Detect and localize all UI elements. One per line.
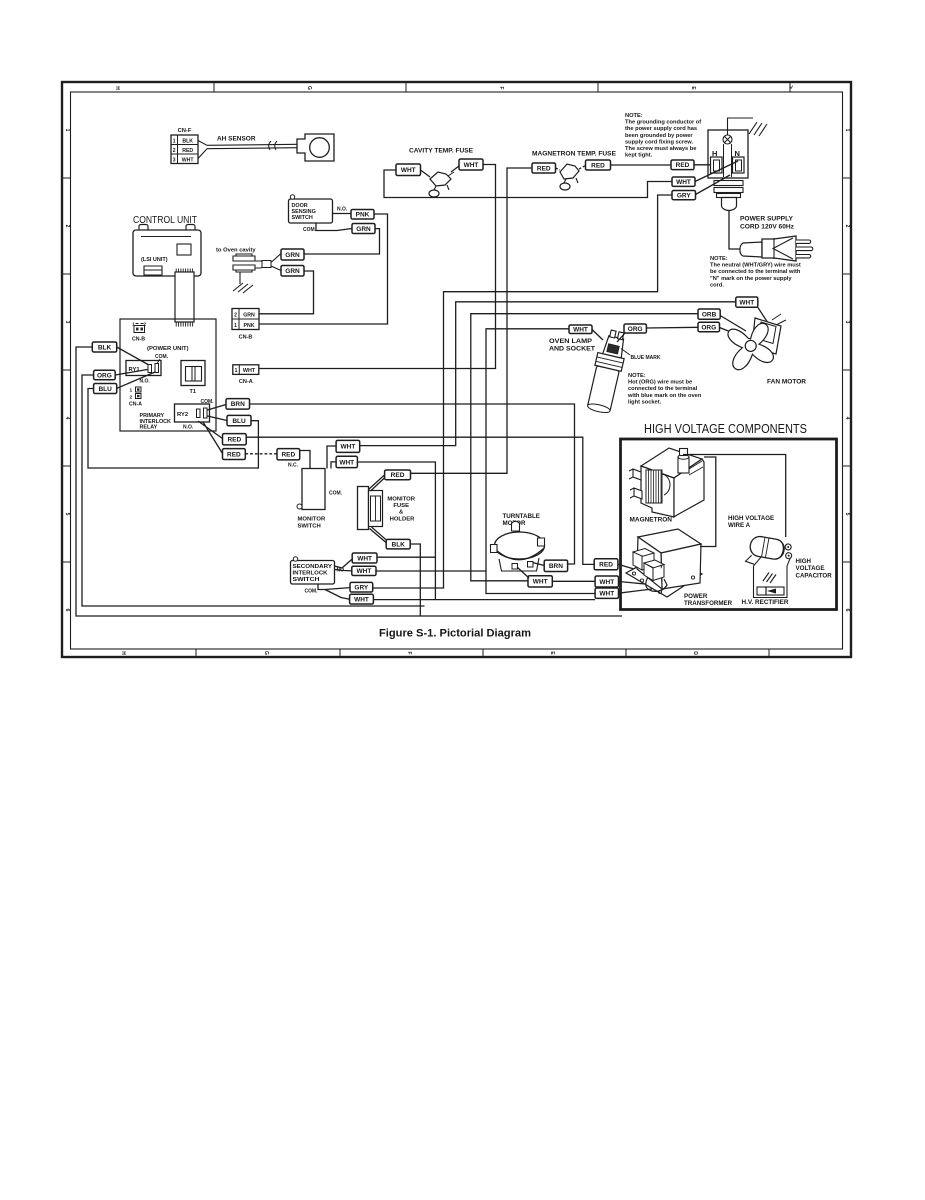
wire label WHT cavity R [459, 159, 483, 170]
svg-text:WHT: WHT [354, 596, 369, 603]
wire sec COM to WHT C [325, 590, 350, 600]
hv rectifier [754, 557, 791, 598]
svg-text:(LSI UNIT): (LSI UNIT) [141, 257, 168, 263]
svg-text:RED: RED [676, 162, 690, 169]
svg-text:RY2: RY2 [177, 412, 188, 418]
magnetron temp fuse part [560, 164, 579, 190]
wire label RED monitor fuse [385, 470, 411, 480]
wire WHT cavity R to CN-A WHT [259, 165, 496, 369]
svg-text:6: 6 [64, 609, 70, 612]
svg-text:D: D [692, 651, 698, 655]
wire ORG loop bottom [82, 375, 425, 606]
wire RED plug to H terminal [694, 164, 711, 166]
ground symbol power cord [728, 118, 768, 136]
wire WHT fan diag to motor [758, 307, 770, 326]
wire motor to WHT L [517, 567, 529, 578]
wire RY2 pin to BLU [208, 416, 228, 421]
wire ORB long [471, 314, 698, 581]
inner border frame [71, 92, 843, 649]
svg-text:WHT: WHT [340, 444, 355, 451]
svg-text:3: 3 [173, 158, 176, 164]
svg-text:Figure S-1. Pictorial Diagram: Figure S-1. Pictorial Diagram [379, 628, 531, 640]
wire GRN door to GRN upper [304, 229, 380, 254]
svg-text:GRY: GRY [677, 192, 692, 199]
oven lamp and socket drawing [585, 328, 630, 414]
connector CN-B [232, 309, 259, 330]
svg-text:4: 4 [844, 417, 850, 420]
wire switch stub A [327, 446, 336, 469]
wire WHT monitor B long [357, 462, 435, 600]
svg-text:RED: RED [599, 562, 613, 569]
svg-text:CN-A: CN-A [239, 379, 253, 385]
power unit box [120, 319, 216, 431]
wire door NO to PNK [333, 213, 352, 215]
svg-text:WHT: WHT [401, 167, 416, 174]
door sensing switch body [289, 195, 333, 223]
svg-text:FAN MOTOR: FAN MOTOR [767, 379, 807, 386]
wire motor to BRN [533, 563, 545, 566]
svg-text:G: G [263, 651, 269, 655]
connector CN-B pins on power unit [132, 322, 147, 333]
svg-text:RED: RED [537, 165, 551, 172]
AH sensor body [297, 134, 334, 161]
svg-text:to Oven cavity: to Oven cavity [216, 248, 256, 254]
wire BLK diag to RY1 [117, 347, 148, 365]
svg-text:4: 4 [64, 417, 70, 420]
wire ORG diag to motor [720, 328, 737, 335]
svg-text:1: 1 [235, 368, 238, 374]
svg-text:WHT: WHT [676, 179, 691, 186]
wire label WHT monitor A [336, 440, 360, 452]
svg-text:CN-F: CN-F [178, 128, 192, 134]
svg-text:RED: RED [391, 472, 405, 479]
wire WHT mid diag [619, 582, 646, 585]
wire RY2 to RED1 [198, 421, 223, 439]
svg-text:>: > [787, 85, 793, 89]
hv capacitor drawing [745, 535, 794, 571]
svg-text:COM.: COM. [201, 399, 215, 405]
svg-text:RED: RED [227, 437, 241, 444]
wire RED transformer diag [618, 564, 648, 573]
svg-text:COM.: COM. [305, 589, 319, 595]
control unit ribbon cable [175, 269, 194, 327]
svg-text:ORG: ORG [97, 372, 112, 379]
wire WHT sec A right [377, 556, 435, 558]
wire fuse holder diag to BLK 2 [372, 527, 388, 541]
wire label RED relay 1 [223, 434, 247, 445]
connector CN-A WHT box [233, 365, 259, 375]
svg-text:BLU: BLU [98, 386, 112, 393]
wire label RED magfuse R [586, 160, 611, 170]
wire label GRY plug [672, 191, 696, 200]
wire WHT L to WHT mid [552, 580, 595, 582]
svg-text:WHT: WHT [464, 162, 479, 169]
wire label RED transformer [594, 559, 618, 570]
svg-text:F: F [498, 86, 504, 89]
wire BLU diag to RY1 [117, 372, 155, 388]
svg-text:WHT: WHT [533, 579, 548, 586]
svg-text:WHT: WHT [357, 555, 372, 562]
connector CN-A pins [130, 387, 142, 401]
svg-text:MAGNETRON TEMP. FUSE: MAGNETRON TEMP. FUSE [532, 151, 616, 158]
turntable motor drawing [491, 522, 545, 572]
svg-text:5: 5 [844, 513, 850, 516]
connector CN-F [171, 135, 198, 164]
svg-text:H: H [114, 86, 120, 90]
wire break marks [269, 141, 277, 150]
svg-text:COM.: COM. [303, 227, 317, 233]
wire fuse to WHT cavity R [451, 166, 459, 172]
svg-text:H: H [120, 651, 126, 655]
wire magnetron top wire [683, 455, 786, 538]
high voltage components box [621, 439, 837, 610]
svg-text:2: 2 [173, 148, 176, 154]
wire RED magfuse L to fuse [556, 168, 561, 170]
svg-text:GRN: GRN [356, 226, 371, 233]
svg-text:T1: T1 [190, 389, 196, 395]
wire ORG fan to ORG lamp [646, 326, 698, 329]
svg-text:RED: RED [591, 162, 605, 169]
svg-text:2: 2 [844, 225, 850, 228]
secondary interlock switch body [291, 557, 335, 584]
wire GRY plug loop down [373, 195, 673, 588]
wire label GRN upper [281, 249, 304, 260]
wire label RED relay 2 [223, 449, 246, 460]
svg-text:WHT: WHT [599, 591, 614, 598]
svg-text:1: 1 [130, 388, 133, 394]
wire WHT fan long [360, 302, 736, 446]
wire RY2 to RED2 [203, 422, 223, 454]
power cord plug drawing [740, 236, 813, 261]
wire RED2 dashed [245, 453, 277, 455]
wire label BLK power unit [92, 342, 116, 352]
terminal block screw [723, 135, 732, 144]
wire fuse holder diag to RED [369, 475, 385, 490]
svg-text:1: 1 [64, 129, 70, 132]
wire label WHT plug [672, 177, 695, 186]
wire lug to GRN boxes [271, 254, 281, 271]
wire ORB diag to motor [720, 316, 746, 332]
wire RED1 long [246, 437, 594, 564]
svg-text:2: 2 [64, 225, 70, 228]
wire ORG diag to RY1 [115, 370, 147, 376]
svg-text:BLK: BLK [98, 344, 112, 351]
svg-text:BLUE MARK: BLUE MARK [631, 355, 662, 361]
wire AH sensor leads [198, 141, 297, 159]
svg-text:GRN: GRN [285, 268, 300, 275]
svg-text:RED: RED [281, 452, 295, 459]
svg-text:(POWER UNIT): (POWER UNIT) [147, 346, 189, 352]
wire label ORG lamp [624, 324, 646, 333]
oven cavity ground lug [233, 254, 271, 272]
svg-text:BRN: BRN [231, 401, 245, 408]
svg-text:WHT: WHT [182, 158, 195, 164]
wire RED monitor to switch [300, 451, 310, 469]
svg-text:N.O.: N.O. [183, 425, 194, 431]
wire RED magfuse R to RED plug [611, 164, 672, 166]
svg-text:AH SENSOR: AH SENSOR [217, 136, 256, 143]
svg-text:NOTE: The grounding conductor: NOTE: The grounding conductor of the pow… [625, 113, 703, 159]
wire fuse holder diag to RED 2 [371, 477, 387, 492]
power transformer drawing [626, 529, 702, 597]
wire WHT mid2 diag [619, 589, 653, 593]
svg-text:BRN: BRN [549, 563, 563, 570]
magnetron drawing [629, 448, 704, 517]
svg-text:2: 2 [130, 395, 133, 401]
svg-text:CAVITY TEMP. FUSE: CAVITY TEMP. FUSE [409, 148, 473, 155]
wire switch stub B [331, 462, 336, 469]
svg-text:N.O.: N.O. [140, 379, 151, 385]
wire label WHT cavity L [396, 164, 421, 176]
outer border frame [62, 82, 851, 657]
svg-text:COM.: COM. [155, 354, 169, 360]
wire label WHT transformer mid [595, 576, 618, 587]
control unit body [133, 225, 201, 277]
wire WHT plug diag to N terminal [695, 161, 738, 182]
svg-text:CN-B: CN-B [239, 335, 253, 341]
ground symbol oven cavity [233, 272, 253, 293]
svg-text:1: 1 [234, 323, 237, 329]
wire label ORG fan [698, 322, 720, 331]
svg-text:HIGH VOLTAGE COMPONENTS: HIGH VOLTAGE COMPONENTS [644, 421, 807, 436]
svg-text:6: 6 [844, 609, 850, 612]
wire PNK to CN-B [259, 214, 388, 324]
wire label GRN door [352, 224, 375, 234]
svg-text:POWER SUPPLY: POWER SUPPLY [740, 216, 794, 223]
wire WHT lamp diag to socket [592, 330, 603, 341]
wire label BRN turntable [544, 560, 567, 571]
svg-text:MAGNETRON: MAGNETRON [630, 517, 673, 524]
svg-text:WHT: WHT [573, 327, 588, 334]
wire transformer to magnetron wire [700, 457, 716, 547]
svg-text:WHT: WHT [356, 568, 371, 575]
wire GRY plug diag to block [696, 175, 731, 195]
wire ORG lamp diag to socket [617, 333, 625, 342]
wire fuse to RED magfuse R [579, 166, 586, 170]
wire label WHT fan [736, 297, 758, 307]
svg-text:G: G [306, 86, 312, 90]
transformer T1 [181, 361, 205, 386]
wire WHT cavity L loop to plug WHT [384, 170, 672, 198]
svg-text:COM.: COM. [329, 491, 343, 497]
svg-text:OVEN LAMP: OVEN LAMP [549, 338, 592, 345]
wire label GRY secondary [350, 582, 373, 592]
svg-text:CN-B: CN-B [132, 337, 145, 343]
cord grip bars [714, 181, 743, 211]
svg-text:PNK: PNK [244, 323, 255, 329]
wire label WHT secondary A [352, 553, 377, 563]
cavity temp fuse part [429, 172, 454, 197]
svg-text:CORD 120V 60Hz: CORD 120V 60Hz [740, 224, 794, 231]
wire BLK loop bottom [76, 347, 622, 616]
svg-text:3: 3 [64, 321, 70, 324]
wire label RED monitor [277, 449, 300, 460]
wire BLK fuse down [410, 544, 420, 616]
svg-text:WHT: WHT [739, 299, 754, 306]
relay RY2 [175, 404, 210, 422]
border zone ticks top [62, 82, 851, 657]
svg-text:1: 1 [844, 129, 850, 132]
power cord terminal block [708, 130, 748, 178]
wire label BLU power unit [94, 384, 117, 394]
wire door COM path [316, 223, 352, 231]
wire label RED magfuse L [532, 163, 556, 173]
wire WHT sec C right [373, 599, 595, 601]
wire label WHT lamp [569, 325, 592, 334]
svg-text:RED: RED [182, 148, 193, 154]
wire WHT sec B right [376, 570, 486, 572]
wire label GRN lower [281, 266, 304, 277]
svg-text:GRN: GRN [243, 313, 255, 319]
wire GRN lower to CN-B [259, 271, 314, 314]
svg-text:BLK: BLK [392, 541, 406, 548]
fan motor drawing [713, 309, 787, 383]
wire RY2 pin to BRN [208, 405, 227, 411]
svg-text:N.C.: N.C. [288, 463, 299, 469]
svg-text:F: F [406, 651, 412, 654]
svg-text:GRY: GRY [354, 585, 369, 592]
wire label WHT turntable L [528, 576, 552, 587]
svg-text:PNK: PNK [356, 212, 370, 219]
wire label WHT monitor B [336, 456, 357, 467]
svg-text:5: 5 [64, 513, 70, 516]
svg-text:N.O.: N.O. [337, 207, 348, 213]
wire label BLU relay [227, 415, 251, 425]
wire label ORB fan [698, 309, 720, 319]
blue mark pointer [621, 349, 630, 356]
svg-text:2: 2 [234, 313, 237, 319]
wire BRN long [250, 404, 575, 564]
wire label PNK door [351, 210, 374, 220]
svg-text:WHT: WHT [339, 459, 354, 466]
svg-text:BLU: BLU [232, 418, 246, 425]
wire RED magfuse L down to monitor fuse RED [411, 168, 533, 473]
wire label BLK monitor fuse [386, 539, 410, 549]
svg-text:ORG: ORG [701, 324, 716, 331]
svg-text:WHT: WHT [599, 579, 614, 586]
wire label WHT transformer mid2 [595, 588, 618, 598]
wire WHT lamp long [486, 329, 595, 594]
svg-text:CN-A: CN-A [129, 402, 142, 408]
wire WHT cavity L to fuse [421, 170, 431, 177]
wire sec NO to WHT B [335, 570, 352, 571]
wire label WHT secondary C [350, 594, 374, 604]
svg-text:BLK: BLK [182, 139, 193, 145]
relay RY1 [126, 361, 161, 376]
monitor switch body [297, 469, 325, 510]
svg-text:AND SOCKET: AND SOCKET [549, 346, 595, 353]
monitor fuse holder [358, 487, 383, 530]
wire fuse holder diag to BLK [370, 529, 387, 543]
svg-text:WHT: WHT [243, 368, 256, 374]
svg-text:ORB: ORB [702, 311, 717, 318]
svg-text:ORG: ORG [628, 326, 643, 333]
wire label WHT secondary B [352, 566, 376, 575]
wire label ORG power unit [94, 370, 116, 379]
svg-text:1: 1 [173, 139, 176, 145]
wire label BRN relay [226, 399, 250, 410]
svg-text:GRN: GRN [285, 252, 300, 259]
svg-text:RED: RED [227, 451, 241, 458]
svg-text:H.V. RECTIFIER: H.V. RECTIFIER [742, 599, 790, 606]
wire sec COM path [318, 584, 350, 590]
wire sec NO to WHT A [335, 559, 353, 568]
svg-text:3: 3 [844, 321, 850, 324]
wire plug boot to cord plug [729, 211, 740, 250]
wire BLU loop [88, 389, 258, 469]
wire label RED plug [671, 160, 694, 170]
